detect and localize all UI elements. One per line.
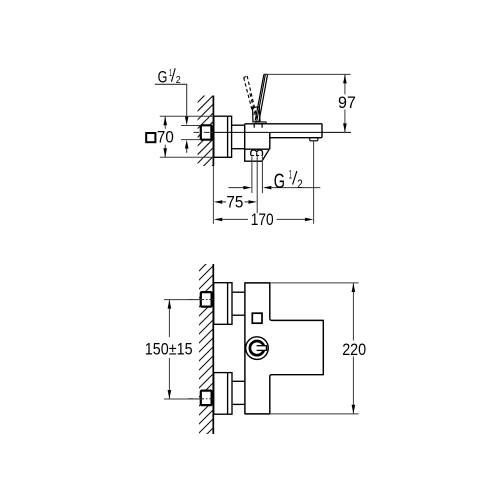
dim 150±15 <box>168 300 170 337</box>
axis line through body and spout <box>214 131 351 133</box>
svg-text:97: 97 <box>338 93 356 112</box>
lever handle (solid position) <box>264 73 268 75</box>
upper wall nut <box>201 292 212 307</box>
spout <box>270 137 322 139</box>
fitting centre line <box>194 131 214 133</box>
dim 170 <box>214 218 223 222</box>
label G 1/2 bottom <box>243 186 252 190</box>
dim 97 <box>344 74 346 94</box>
lower escutcheon <box>214 373 232 415</box>
dim 70 dimension line <box>164 116 166 129</box>
square symbol <box>146 133 155 142</box>
lower centre line <box>188 398 213 400</box>
union fitting behind wall <box>201 125 212 139</box>
small square on body <box>252 313 262 323</box>
dim 220 extension lines <box>270 282 359 284</box>
dim 220 <box>352 283 354 341</box>
leader arrow down <box>185 116 189 125</box>
svg-text:150±15: 150±15 <box>145 340 193 359</box>
lever foot <box>256 122 267 124</box>
aerator nub <box>310 138 318 141</box>
wall <box>212 96 214 167</box>
upper s-union <box>232 291 245 293</box>
escutcheon <box>214 116 232 157</box>
wall hatching <box>190 245 225 451</box>
svg-text:220: 220 <box>342 340 366 359</box>
s-union block <box>232 124 245 126</box>
lever hub <box>253 107 260 122</box>
lower s-union <box>232 380 245 382</box>
outlet nipple <box>251 150 263 155</box>
lever handle (dashed alternate position) <box>244 78 254 118</box>
upper centre line <box>188 299 213 301</box>
dim 150±15 extension lines <box>164 299 204 301</box>
arrow up at fitting lower edge <box>185 140 189 149</box>
dim 70 extension lines <box>160 115 214 117</box>
label underline and leader <box>155 83 187 85</box>
wall <box>212 264 214 434</box>
body <box>245 123 322 125</box>
svg-text:1: 1 <box>289 169 292 181</box>
upper escutcheon <box>214 283 232 325</box>
spout outlet extension line <box>313 141 315 224</box>
fitting edge extension lines <box>181 125 201 127</box>
outlet side lines down <box>251 156 253 193</box>
dim 75 <box>214 200 223 204</box>
svg-text:1: 1 <box>169 67 172 79</box>
svg-text:75: 75 <box>226 193 243 212</box>
lower wall nut <box>201 391 212 406</box>
dim 97 reference line top <box>265 73 351 75</box>
shower outlet block <box>245 149 269 161</box>
svg-text:G: G <box>158 68 168 87</box>
outlet centre line <box>256 156 258 213</box>
svg-text:2: 2 <box>297 179 303 191</box>
wall extension line down to 170 dim <box>212 166 214 224</box>
wall hatching <box>190 75 225 206</box>
svg-text:G: G <box>274 170 285 193</box>
svg-text:70: 70 <box>157 128 174 147</box>
grohe logo <box>246 337 269 360</box>
body outline plan <box>245 283 323 414</box>
mount ticks on body top <box>253 124 255 128</box>
svg-text:170: 170 <box>251 210 274 229</box>
